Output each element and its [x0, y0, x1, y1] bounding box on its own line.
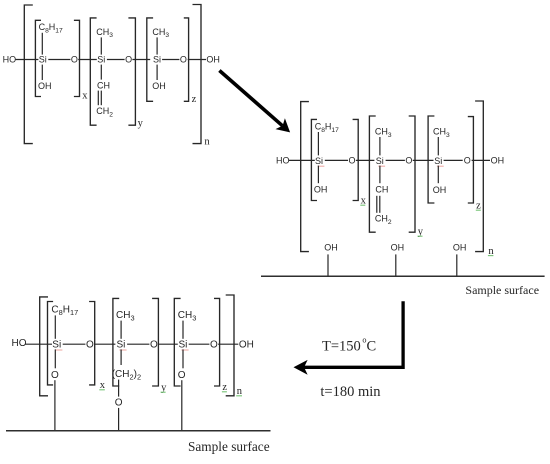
svg-text:O: O	[115, 398, 123, 409]
unit z bracket right (s1)	[184, 18, 189, 101]
bond HO-Si1 (s3)	[25, 343, 52, 345]
svg-text:t=180 min: t=180 min	[320, 384, 381, 400]
unit z bracket right (s3)	[214, 298, 220, 386]
bond O-Si3 (s3)	[158, 343, 178, 345]
red spell-check squiggle under Si1 (s3)	[55, 349, 62, 351]
svg-text:O: O	[71, 55, 78, 65]
svg-text:O: O	[180, 55, 187, 65]
svg-text:O: O	[405, 156, 412, 166]
svg-text:T=150: T=150	[322, 338, 361, 354]
structure 1: free polysiloxane molecule (top left)	[3, 5, 220, 148]
svg-text:O: O	[125, 55, 132, 65]
bond C8H17-Si1 (s2)	[317, 132, 319, 155]
bond O-Si2 (s2)	[356, 159, 375, 161]
svg-text:Si: Si	[315, 156, 323, 166]
bond Si3-OH (s1)	[156, 65, 158, 80]
bond O-OH end (s2)	[472, 159, 490, 161]
green grammar squiggle under x (s2)	[360, 204, 365, 206]
sample surface line 2	[6, 430, 271, 432]
unit y bracket left (s3)	[113, 298, 119, 386]
unit z bracket left (s1)	[147, 18, 153, 101]
bond Si3-O (s2)	[444, 159, 463, 161]
svg-text:HO: HO	[276, 155, 290, 165]
svg-text:CH: CH	[375, 185, 388, 195]
vinyl C=C double bond left line (s2)	[376, 196, 378, 213]
svg-text:CH: CH	[97, 81, 110, 91]
bond Si3-O (s1)	[162, 59, 179, 61]
unit x bracket right (s3)	[89, 302, 95, 385]
svg-text:O: O	[210, 339, 218, 350]
bond Si2-O (s2)	[386, 159, 405, 161]
bond Si1-O below (s3)	[54, 349, 56, 368]
svg-text:HO: HO	[3, 54, 17, 64]
svg-text:Si: Si	[97, 55, 105, 65]
unit z bracket left (s2)	[428, 116, 434, 203]
outer bracket right (s1)	[193, 5, 202, 144]
green grammar squiggle under y (s2)	[418, 235, 423, 237]
svg-text:Si: Si	[39, 55, 47, 65]
unit z bracket right (s2)	[468, 117, 474, 203]
bond CH3-Si3 (s1)	[156, 37, 158, 54]
svg-text:n: n	[204, 137, 210, 148]
red spell-check squiggle under Si3 (s2)	[437, 165, 444, 167]
svg-text:Si: Si	[52, 339, 61, 350]
svg-text:OH: OH	[391, 242, 405, 252]
svg-text:OH: OH	[206, 55, 220, 65]
bond Si1-O (s2)	[325, 159, 348, 161]
bond C8H17-Si1 (s1)	[41, 33, 43, 55]
red spell-check squiggle under Si2 (s3)	[119, 349, 126, 351]
svg-text:y: y	[138, 118, 144, 129]
bond O-OH end (s3)	[218, 343, 238, 345]
svg-text:Si: Si	[153, 55, 161, 65]
svg-text:HO: HO	[12, 338, 27, 349]
unit x bracket left (s1)	[35, 20, 41, 96]
unit y bracket right (s1)	[128, 18, 135, 125]
bond C8H17-Si1 (s3)	[54, 315, 56, 338]
bond Si3-O below (s3)	[182, 349, 184, 368]
svg-text:O: O	[178, 370, 186, 381]
unit y bracket left (s2)	[369, 116, 375, 232]
svg-text:Si: Si	[179, 339, 188, 350]
svg-text:O: O	[349, 156, 356, 166]
bond (CH2)2-O (s3)	[118, 380, 120, 397]
svg-text:O: O	[86, 339, 94, 350]
bond CH3-Si2 (s3)	[120, 321, 122, 339]
bond HO-Si1 (s2)	[289, 159, 315, 161]
bond CH3-Si3 (s3)	[182, 321, 184, 339]
bond Si3-OH (s2)	[437, 166, 439, 184]
green grammar squiggle under z (s3)	[222, 391, 227, 393]
svg-text:OH: OH	[491, 156, 505, 166]
unit y bracket left (s1)	[90, 18, 96, 125]
svg-text:OH: OH	[453, 242, 467, 252]
bond Si2-O (s3)	[127, 343, 149, 345]
bond Si2-CH vinyl (s2)	[379, 166, 381, 184]
bond HO-Si1 (s1)	[16, 59, 39, 61]
bond Si2-O (s1)	[107, 59, 125, 61]
bond CH3-Si3 (s2)	[437, 137, 439, 155]
green grammar squiggle under n (s3)	[236, 395, 242, 397]
unit y bracket right (s2)	[409, 116, 415, 232]
svg-text:OH: OH	[433, 185, 447, 195]
bond O-Si3 (s1)	[132, 59, 150, 61]
svg-text:OH: OH	[314, 185, 328, 195]
unit x bracket left (s3)	[48, 302, 54, 385]
svg-text:OH: OH	[152, 81, 166, 91]
svg-text:Si: Si	[376, 156, 384, 166]
structure 3: polysiloxane covalently bonded to surface (bottom left)	[12, 295, 254, 430]
bond O-OH end (s1)	[188, 59, 206, 61]
bond O-surface 3 (s3)	[181, 380, 183, 430]
svg-text:z: z	[192, 94, 197, 105]
bond surface OH c to surface (s2)	[456, 254, 458, 275]
svg-text:OH: OH	[38, 81, 52, 91]
bond surface OH b to surface (s2)	[395, 254, 397, 275]
bond Si3-O (s3)	[189, 343, 210, 345]
red spell-check squiggle under Si2 (s2)	[378, 165, 385, 167]
svg-text:x: x	[82, 91, 88, 102]
bond O-surface 2 (s3)	[118, 408, 120, 430]
svg-text:Sample surface: Sample surface	[465, 283, 539, 297]
outer bracket left (s1), subscript n	[24, 5, 33, 144]
sample surface line 1	[261, 275, 545, 277]
bond O-Si2 (s1)	[78, 59, 97, 61]
svg-text:(CH2)2: (CH2)2	[112, 369, 141, 381]
vinyl C=C double bond right line (s1)	[100, 91, 102, 106]
bond O-Si2 (s3)	[94, 343, 115, 345]
red spell-check squiggle under Si3 (s3)	[181, 349, 188, 351]
outer bracket left (s3)	[40, 297, 48, 396]
svg-text:Sample surface: Sample surface	[188, 439, 270, 454]
green grammar squiggle under y (s3)	[161, 391, 166, 393]
svg-text:Si: Si	[117, 339, 126, 350]
bond Si2-(CH2)2 (s3)	[120, 349, 122, 365]
bond CH3-Si2 (s2)	[379, 137, 381, 155]
svg-text:OH: OH	[239, 339, 254, 350]
bond Si1-O (s3)	[63, 343, 86, 345]
structure 2: polysiloxane hydrogen-bonded to surface OH groups (right)	[276, 101, 504, 276]
bond CH3-Si2 (s1)	[100, 37, 102, 54]
outer bracket right (s2)	[475, 101, 483, 252]
svg-text:O: O	[150, 339, 158, 350]
bond Si1-OH (s2)	[317, 166, 319, 184]
reaction arrow 2: thick elbow arrow with T and t conditions	[294, 301, 404, 375]
bond Si1-O (s1)	[48, 59, 70, 61]
bond Si2-CH vinyl (s1)	[100, 65, 102, 80]
bond O-Si3 (s2)	[413, 159, 434, 161]
svg-text:Si: Si	[434, 156, 442, 166]
unit y bracket right (s3)	[152, 298, 158, 386]
vinyl C=C double bond right line (s2)	[379, 196, 381, 213]
unit z bracket left (s3)	[174, 298, 180, 386]
bond O-surface 1 (s3)	[54, 380, 56, 430]
svg-text:OH: OH	[324, 242, 338, 252]
green grammar squiggle under x (s3)	[99, 389, 105, 391]
svg-text:O: O	[464, 156, 471, 166]
unit x bracket right (s1)	[74, 20, 80, 96]
outer bracket left (s2)	[301, 102, 309, 252]
vinyl C=C double bond left line (s1)	[97, 91, 99, 106]
unit x bracket right (s2)	[353, 119, 359, 200]
reaction arrow 1: thick diagonal arrow from structure 1 to structure 2	[219, 71, 290, 133]
green grammar squiggle under n (s2)	[488, 255, 494, 257]
green grammar squiggle under z (s2)	[476, 209, 481, 211]
bond Si1-OH (s1)	[41, 65, 43, 80]
red spell-check squiggle under Si1 (s2)	[318, 165, 325, 167]
svg-text:O: O	[51, 370, 59, 381]
unit x bracket left (s2)	[311, 119, 317, 200]
bond surface OH a to surface (s2)	[327, 254, 329, 275]
outer bracket right (s3)	[226, 295, 234, 396]
